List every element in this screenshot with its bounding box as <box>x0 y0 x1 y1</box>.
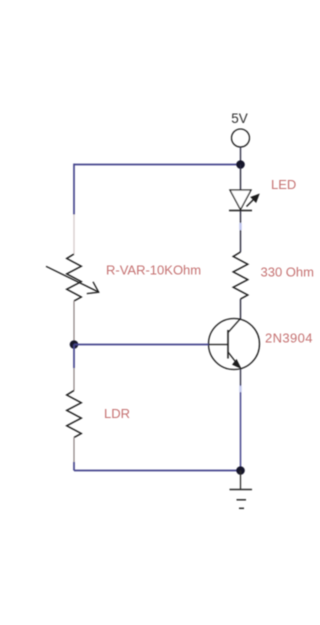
svg-text:2N3904: 2N3904 <box>265 331 313 346</box>
transistor Q1 emitter stroke <box>228 352 240 368</box>
top wire (5V rail to left) <box>74 164 241 166</box>
node junction left <box>70 340 79 349</box>
variable resistor RV1 zigzag <box>67 254 82 301</box>
svg-text:5V: 5V <box>231 111 248 126</box>
svg-text:R-VAR-10KOhm: R-VAR-10KOhm <box>106 262 201 277</box>
node junction bottom <box>236 466 245 475</box>
LDR zigzag <box>67 391 82 438</box>
variable resistor RV1 arrow <box>46 266 99 293</box>
RV1 bottom pin lead (gray) <box>73 301 75 341</box>
transistor Q1 collector stroke <box>228 319 241 333</box>
node junction top <box>236 160 245 169</box>
wire anchor mark <box>239 223 241 230</box>
left rail wire bottom <box>73 462 75 471</box>
svg-text:LED: LED <box>271 177 296 192</box>
LED D1 triangle <box>230 190 251 210</box>
transistor Q1 base bar <box>227 330 229 359</box>
wire LED cathode to R330 <box>240 211 242 252</box>
LED D1 emission arrow <box>247 195 259 207</box>
transistor Q1 circle <box>209 319 260 370</box>
power pin wire <box>240 147 242 165</box>
wire junction to LDR <box>73 345 75 369</box>
LDR bottom pin lead <box>73 438 75 463</box>
wire R330 to collector <box>240 299 242 320</box>
emitter wire to ground node <box>240 369 242 385</box>
transistor Q1 base lead <box>209 344 229 346</box>
ground bar 3 <box>239 507 244 509</box>
LDR top pin lead <box>73 368 75 391</box>
svg-text:LDR: LDR <box>104 406 130 421</box>
svg-text:330 Ohm: 330 Ohm <box>261 265 314 280</box>
wire junction to LED anode <box>240 165 242 191</box>
power terminal circle <box>232 129 250 147</box>
left rail wire top <box>73 164 75 215</box>
ground stem <box>240 471 242 490</box>
base wire (junction to transistor) <box>74 344 209 346</box>
bottom wire <box>74 470 241 472</box>
RV1 top pin lead (pale) <box>73 215 75 255</box>
ground bar 1 <box>230 489 253 491</box>
ground bar 2 <box>237 499 247 501</box>
wire anchor mark 2 <box>239 386 241 392</box>
LED D1 cathode bar <box>229 210 252 212</box>
emitter wire lower <box>240 385 242 471</box>
resistor R330 zigzag <box>233 252 248 299</box>
transistor Q1 emitter arrowhead <box>233 360 242 369</box>
